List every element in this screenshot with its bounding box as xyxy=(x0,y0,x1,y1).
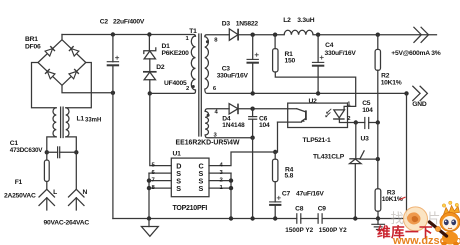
terminal L xyxy=(39,189,55,210)
wire: bias bottom lead xyxy=(205,135,253,138)
resistor R2 10K 1% xyxy=(375,35,380,123)
node: C6 top junction xyxy=(250,107,254,111)
svg-text:L2: L2 xyxy=(283,17,291,24)
svg-text:10K1%: 10K1% xyxy=(381,80,402,87)
capacitor C2 22uF/400V xyxy=(107,35,119,93)
resistor R3 10K 1% xyxy=(375,189,381,219)
diode BR1-topright xyxy=(69,46,79,56)
wire: bias top lead xyxy=(205,109,229,112)
svg-text:1500P Y2: 1500P Y2 xyxy=(319,227,347,234)
svg-text:C7: C7 xyxy=(282,191,291,198)
node: C2 top junction xyxy=(111,32,115,36)
diode D2 UF4005 xyxy=(143,72,157,94)
svg-text:D3: D3 xyxy=(222,21,231,28)
svg-text:+5V@600mA 3%: +5V@600mA 3% xyxy=(391,50,440,57)
wire: secondary top lead xyxy=(205,35,230,37)
capacitor C8 1500P Y2 xyxy=(297,213,301,224)
terminal N xyxy=(69,189,85,210)
capacitor C3 330uF/16V xyxy=(247,35,259,94)
wire: L2 to +5V arrow xyxy=(313,34,437,36)
node: rail U1 left bus xyxy=(147,216,151,220)
svg-text:T1: T1 xyxy=(189,28,197,35)
node: secondary phase dot xyxy=(206,40,209,43)
node: primary phase dot xyxy=(192,85,195,88)
IC U1 TOP210PFI xyxy=(171,158,209,197)
capacitor C6 104 xyxy=(248,109,257,138)
wire: D1 to D2 xyxy=(149,59,151,72)
svg-text:U1: U1 xyxy=(173,151,182,158)
svg-text:L: L xyxy=(53,189,57,196)
svg-text:U3: U3 xyxy=(361,136,370,143)
node: D1 top junction xyxy=(147,32,151,36)
node: bias phase dot xyxy=(207,114,210,117)
capacitor C1 473DC630V xyxy=(47,146,77,158)
capacitor C5 104 xyxy=(365,117,378,129)
node: C1 right junction xyxy=(74,150,78,154)
svg-text:47uF/16V: 47uF/16V xyxy=(296,191,324,198)
node: C2 bottom junction xyxy=(111,91,115,95)
svg-text:5.8: 5.8 xyxy=(285,173,294,180)
svg-text:33mH: 33mH xyxy=(85,117,101,123)
wire: primary ground bottom rail xyxy=(113,218,407,220)
watermark red tick xyxy=(399,197,405,200)
transformer T1 secondary winding xyxy=(205,37,209,90)
svg-text:EE16R2KD-UR5\4W: EE16R2KD-UR5\4W xyxy=(176,140,240,147)
node: divider/C5 junction xyxy=(376,120,380,124)
watermark magnifier handle xyxy=(430,222,447,236)
transistor U2 phototransistor xyxy=(278,109,306,122)
wire: U1 pin4 control lead xyxy=(209,152,277,166)
optocoupler U2 TLP521-1 box xyxy=(288,103,348,127)
wire: U1 pin8 lead xyxy=(149,187,171,189)
LED U2 emitter diode xyxy=(333,106,347,122)
node: rail R3 bottom xyxy=(376,216,380,220)
svg-text:R2: R2 xyxy=(381,73,390,80)
svg-text:1N4148: 1N4148 xyxy=(222,122,245,129)
svg-text:P6KE200: P6KE200 xyxy=(162,50,190,57)
wire: GND rail down link xyxy=(406,93,408,218)
resistor R4 5.8 xyxy=(273,152,278,202)
svg-text:D2: D2 xyxy=(156,64,165,71)
transformer T1 bias winding xyxy=(205,111,208,135)
transformer T1 core xyxy=(199,34,202,136)
svg-text:22uF/400V: 22uF/400V xyxy=(113,19,145,26)
diode BR1-topleft xyxy=(45,46,55,56)
node: C4 bottom junction xyxy=(316,91,320,95)
svg-text:90VAC-264VAC: 90VAC-264VAC xyxy=(44,220,90,227)
wire: divider to R3 xyxy=(377,123,379,189)
svg-text:C9: C9 xyxy=(318,206,327,213)
wire: primary DC+ top rail xyxy=(62,35,196,37)
wire: drain down to U1 pin D xyxy=(150,93,172,165)
wire: U1 pin7 lead xyxy=(149,180,171,182)
wire: U1 pin3 lead xyxy=(209,172,231,174)
svg-text:104: 104 xyxy=(362,107,373,114)
svg-text:L1: L1 xyxy=(77,115,85,122)
ground symbol primary xyxy=(141,219,158,237)
svg-text:BR1: BR1 xyxy=(25,36,38,43)
node: C4 top junction xyxy=(316,33,320,37)
node: bias return junction xyxy=(250,136,254,140)
svg-text:UF4005: UF4005 xyxy=(164,80,187,87)
svg-text:1500P Y2: 1500P Y2 xyxy=(285,227,313,234)
capacitor C9 1500P Y2 xyxy=(318,213,322,224)
connector arrow GND output xyxy=(413,86,428,100)
watermark ghost text xyxy=(391,211,441,226)
node: R1 top junction xyxy=(273,33,277,37)
svg-text:330uF/16V: 330uF/16V xyxy=(325,50,357,57)
label U1 letters left xyxy=(176,161,181,193)
svg-text:104: 104 xyxy=(259,122,270,129)
svg-text:C2: C2 xyxy=(100,19,109,26)
wire: U1 pin2 lead xyxy=(209,180,231,182)
diode BR1-bottomright xyxy=(69,69,79,79)
ground symbol earth secondary xyxy=(371,219,385,230)
node: rail TL431 anode xyxy=(353,216,357,220)
bridge rectifier BR1 diamond xyxy=(38,35,86,86)
shunt regulator U3 TL431CLP xyxy=(349,123,378,219)
wire: bridge DC- to C2 bottom xyxy=(62,85,113,93)
wire: bias return down to primary ground xyxy=(252,138,254,219)
svg-text:U2: U2 xyxy=(309,98,318,105)
TVS diode D1 P6KE200 xyxy=(144,35,156,59)
wire: C2 bottom down to primary ground rail xyxy=(112,93,114,219)
node: TL431 ref junction xyxy=(376,157,380,161)
diode D3 1N5822 xyxy=(229,29,284,41)
svg-text:TL431CLP: TL431CLP xyxy=(313,154,345,161)
connector arrow +5V output xyxy=(414,27,429,42)
svg-text:2A250VAC: 2A250VAC xyxy=(4,192,36,199)
resistor R1 150 xyxy=(273,35,356,107)
node: C3 bottom junction xyxy=(251,91,255,95)
inductor L2 3.3uH xyxy=(284,30,313,34)
wire: U1 source bus left xyxy=(148,173,150,218)
light arrows U2 xyxy=(325,109,331,118)
node: TL431 cathode junction xyxy=(354,120,358,124)
capacitor C7 47uF/16V xyxy=(269,196,281,219)
watermark circle logo xyxy=(404,207,428,231)
svg-text:C4: C4 xyxy=(325,42,334,49)
wire: secondary bottom lead to ground rail xyxy=(205,89,407,93)
node: C3 top junction xyxy=(251,33,255,37)
svg-text:D1: D1 xyxy=(162,43,171,50)
fuse F1 2A250VAC xyxy=(44,152,49,189)
node: rail bias return xyxy=(250,216,254,220)
wire: U2 emitter down to control node xyxy=(277,122,279,152)
node: C1 left junction xyxy=(45,150,49,154)
svg-text:150: 150 xyxy=(285,58,296,65)
node: right bus pin2 xyxy=(229,178,233,182)
svg-text:3.3uH: 3.3uH xyxy=(297,17,315,24)
node: right bus pin1 xyxy=(229,186,233,190)
label U1 letters right xyxy=(199,161,204,193)
svg-text:找: 找 xyxy=(391,211,405,226)
wire: N terminal stem xyxy=(75,152,77,189)
node: drain junction xyxy=(148,91,152,95)
svg-text:N: N xyxy=(83,189,88,196)
wire: bridge AC2 to choke right xyxy=(66,63,92,108)
node: R2 top junction xyxy=(376,33,380,37)
watermark mascot xyxy=(440,201,460,245)
svg-text:C8: C8 xyxy=(295,206,304,213)
node: source bus pin8 xyxy=(147,186,151,190)
capacitor C4 330uF/16V xyxy=(312,35,324,94)
svg-text:DF06: DF06 xyxy=(25,44,41,51)
wire: U2 pin2 to C5 xyxy=(348,122,365,124)
svg-text:C3: C3 xyxy=(222,66,231,73)
wire: U1 source bus right xyxy=(230,173,232,218)
wire: drain to T1 primary bottom xyxy=(150,90,196,93)
node: ground rail to Y-cap junction xyxy=(404,91,408,95)
node: source bus pin7 xyxy=(147,178,151,182)
svg-text:S: S xyxy=(199,184,204,193)
diode BR1-bottomleft xyxy=(45,69,55,79)
svg-text:GND: GND xyxy=(412,101,427,108)
node: control node junction xyxy=(273,150,277,154)
wire: U1 pin1 lead xyxy=(209,187,231,189)
wire: U1 pin6 lead xyxy=(149,172,171,174)
svg-text:F1: F1 xyxy=(15,179,23,186)
node: rail C7 xyxy=(273,216,277,220)
svg-text:330uF/16V: 330uF/16V xyxy=(217,73,249,80)
svg-text:S: S xyxy=(176,184,181,193)
diode D4 1N4148 xyxy=(229,104,297,115)
svg-text:TLP521-1: TLP521-1 xyxy=(303,137,331,144)
inductor L1 choke windings xyxy=(47,107,77,152)
transformer T1 primary winding xyxy=(191,36,195,90)
node: rail U1 right bus xyxy=(229,216,233,220)
svg-text:TOP210PFI: TOP210PFI xyxy=(173,205,208,212)
wire: bridge AC1 to choke left xyxy=(32,63,57,108)
svg-text:473DC630V: 473DC630V xyxy=(10,147,44,154)
svg-text:1N5822: 1N5822 xyxy=(236,21,259,28)
